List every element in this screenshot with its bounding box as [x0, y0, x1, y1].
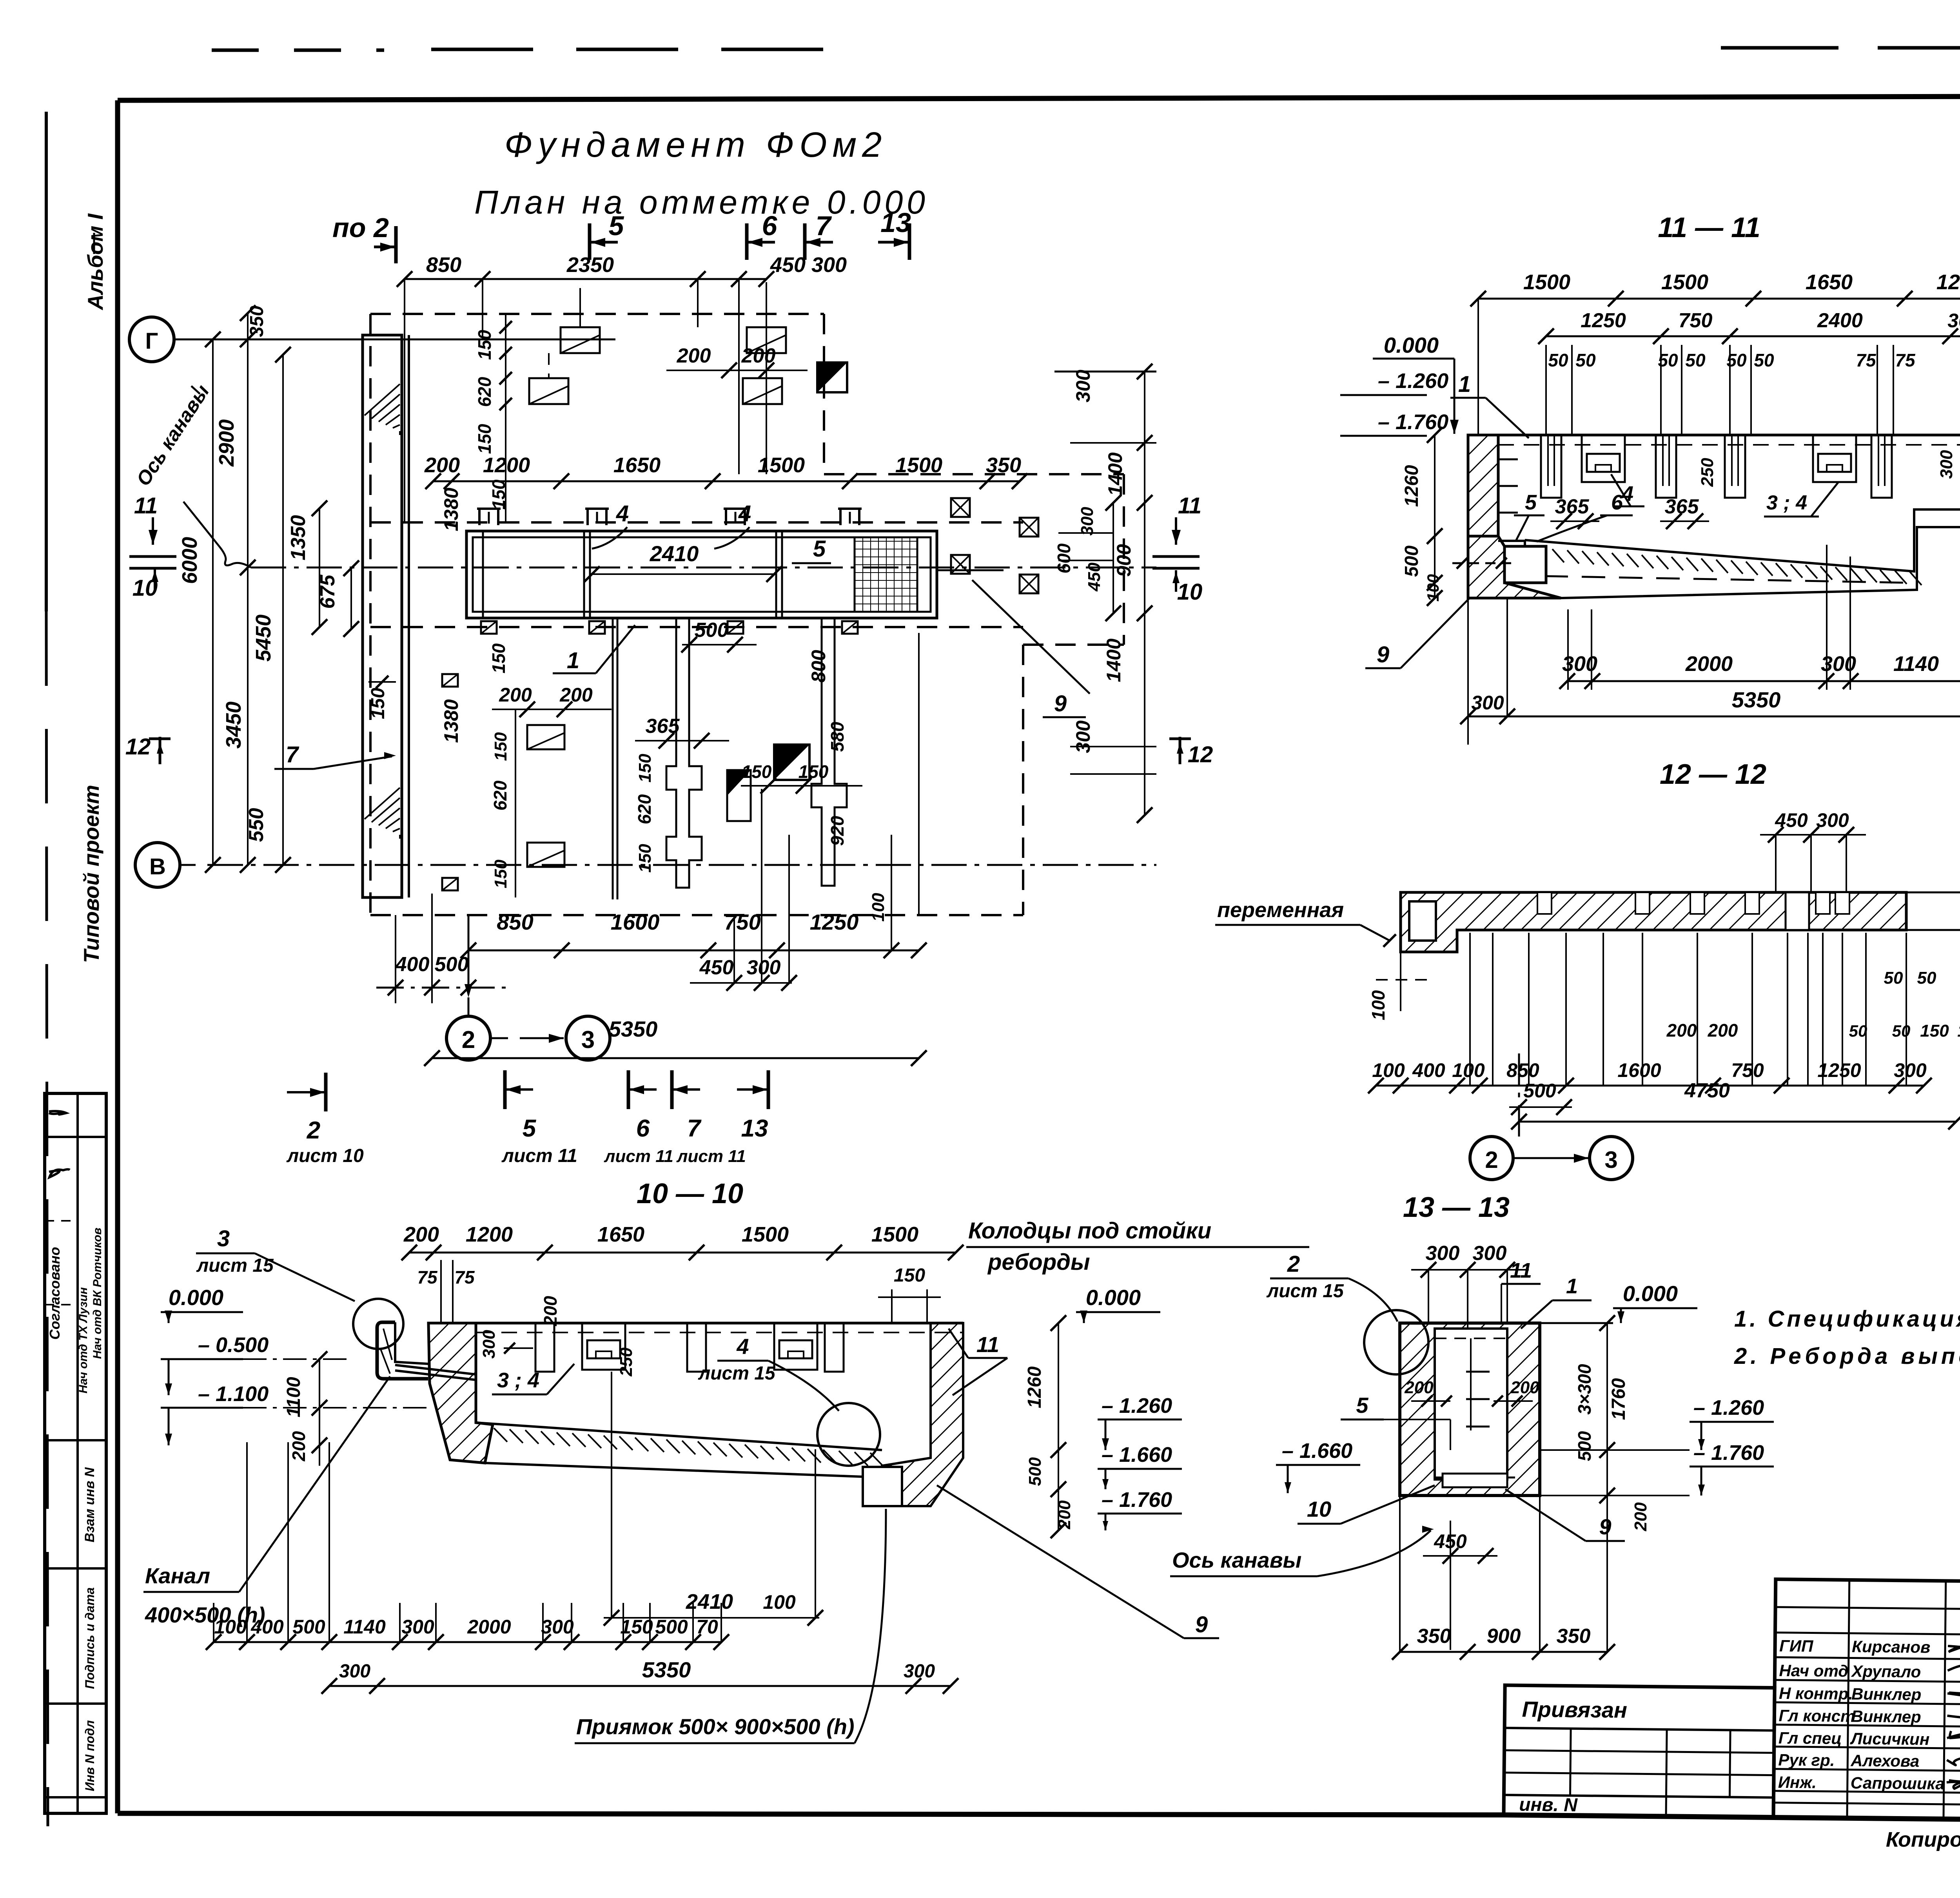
svg-text:1500: 1500	[895, 453, 942, 477]
svg-text:300: 300	[1072, 720, 1094, 753]
svg-text:Г: Г	[145, 328, 158, 354]
svg-text:2350: 2350	[566, 253, 614, 277]
svg-text:50: 50	[1884, 968, 1903, 988]
title block	[1504, 1577, 1960, 1836]
svg-text:300: 300	[1816, 809, 1849, 831]
svg-text:2: 2	[307, 1117, 320, 1144]
svg-text:Колодцы под стойки: Колодцы под стойки	[968, 1218, 1211, 1244]
svg-text:1760: 1760	[1608, 1378, 1629, 1420]
svg-text:0.000: 0.000	[169, 1285, 223, 1310]
svg-text:200: 200	[1510, 1378, 1539, 1397]
plan: axis circle V	[135, 843, 180, 887]
svg-text:10: 10	[1177, 579, 1203, 605]
svg-text:Взам инв N: Взам инв N	[82, 1467, 97, 1543]
plan: bottom cut markers	[324, 1073, 328, 1111]
svg-text:500: 500	[1025, 1457, 1045, 1486]
svg-text:300: 300	[1473, 1242, 1507, 1265]
svg-text:10: 10	[1307, 1497, 1331, 1521]
plan: vertical line to circle 2	[468, 915, 470, 995]
svg-text:400: 400	[250, 1616, 284, 1638]
svg-text:200: 200	[559, 684, 593, 706]
svg-text:Рук гр.: Рук гр.	[1778, 1751, 1835, 1769]
tb: privyazan block	[1504, 1685, 1775, 1817]
svg-text:12: 12	[125, 734, 151, 760]
plan: center axis dash-dot	[251, 567, 1156, 569]
svg-text:лист 15: лист 15	[1266, 1281, 1344, 1302]
svg-text:150: 150	[1957, 1021, 1960, 1041]
svg-text:450: 450	[770, 253, 806, 277]
svg-text:Привязан: Привязан	[1522, 1697, 1627, 1722]
svg-text:– 1.260: – 1.260	[1693, 1396, 1764, 1419]
s11: top dim row2	[1546, 335, 1960, 337]
svg-text:150: 150	[894, 1265, 925, 1286]
svg-text:3 ; 4: 3 ; 4	[497, 1369, 539, 1392]
svg-text:300: 300	[541, 1616, 574, 1638]
svg-text:7: 7	[687, 1115, 702, 1142]
svg-text:1380: 1380	[440, 699, 462, 743]
svg-text:75: 75	[1856, 350, 1877, 370]
s10: body	[377, 1322, 428, 1379]
svg-text:ГИП: ГИП	[1779, 1637, 1813, 1655]
svg-text:1200: 1200	[483, 453, 530, 477]
plan: axis V dash-dot	[208, 864, 1156, 866]
svg-text:В: В	[149, 854, 166, 879]
plan: right end fittings	[951, 498, 970, 517]
left outer sheet edge	[45, 112, 48, 611]
svg-text:900: 900	[1113, 544, 1135, 577]
svg-text:300: 300	[1426, 1242, 1460, 1265]
cut marker 13 top	[908, 223, 911, 260]
svg-text:11: 11	[1178, 493, 1201, 518]
svg-text:Альбом I: Альбом I	[83, 213, 107, 311]
svg-text:2: 2	[1485, 1147, 1498, 1173]
plan: upper anchor cluster right	[747, 327, 786, 353]
svg-text:850: 850	[1506, 1059, 1539, 1081]
svg-text:300: 300	[401, 1616, 434, 1638]
svg-text:– 1.260: – 1.260	[1102, 1394, 1172, 1418]
svg-text:75: 75	[454, 1267, 475, 1287]
svg-text:5350: 5350	[1732, 687, 1781, 712]
svg-text:365: 365	[646, 715, 680, 738]
plan: top dim row A	[405, 278, 766, 280]
svg-text:0.000: 0.000	[1623, 1281, 1678, 1306]
svg-text:450: 450	[699, 956, 734, 979]
svg-text:100: 100	[214, 1616, 247, 1638]
svg-text:5350: 5350	[609, 1017, 658, 1041]
svg-text:1500: 1500	[758, 453, 805, 477]
svg-text:1260: 1260	[1024, 1366, 1045, 1408]
svg-text:400: 400	[1412, 1059, 1445, 1081]
svg-text:0.000: 0.000	[1086, 1285, 1141, 1310]
svg-text:70: 70	[696, 1616, 718, 1638]
svg-text:Нач отд: Нач отд	[1779, 1661, 1848, 1680]
svg-text:– 0.500: – 0.500	[198, 1333, 269, 1357]
s13: right rot dims	[1606, 1323, 1608, 1496]
s10: canal floor lines	[395, 1365, 476, 1374]
svg-text:2900: 2900	[215, 419, 238, 467]
svg-text:2000: 2000	[467, 1616, 511, 1638]
plan: wall strip (column axis G wall)	[363, 335, 402, 897]
plan: dashed pit outline	[370, 313, 824, 315]
svg-text:9: 9	[1054, 691, 1067, 716]
svg-text:лист 15: лист 15	[196, 1255, 274, 1276]
svg-text:Копировал Максимова: Копировал Максимова	[1886, 1828, 1960, 1851]
svg-text:7: 7	[286, 742, 299, 767]
svg-text:Канал: Канал	[145, 1563, 210, 1588]
svg-text:1500: 1500	[871, 1223, 918, 1246]
svg-text:300: 300	[1471, 692, 1504, 714]
svg-text:1650: 1650	[1806, 270, 1853, 294]
svg-text:Приямок 500× 900×500 (h): Приямок 500× 900×500 (h)	[576, 1714, 855, 1739]
svg-text:200: 200	[1666, 1020, 1697, 1041]
svg-text:1400: 1400	[1103, 638, 1125, 682]
svg-text:лист 15: лист 15	[698, 1363, 776, 1384]
svg-text:300: 300	[811, 253, 847, 277]
svg-text:Инж.: Инж.	[1778, 1773, 1817, 1792]
svg-text:переменная: переменная	[1217, 898, 1344, 922]
svg-text:Фундамент ФОм2: Фундамент ФОм2	[505, 125, 887, 165]
svg-text:200: 200	[677, 344, 711, 367]
svg-text:350: 350	[247, 306, 267, 337]
svg-text:620: 620	[474, 377, 495, 407]
svg-text:250: 250	[617, 1347, 636, 1377]
svg-text:150: 150	[474, 424, 495, 454]
svg-text:– 1.660: – 1.660	[1282, 1439, 1352, 1463]
s13: inner well marks	[1466, 1371, 1490, 1373]
plan: top dim row B	[433, 480, 1020, 482]
s10: right wall and pit	[882, 1323, 963, 1506]
svg-text:1140: 1140	[343, 1616, 386, 1638]
svg-text:Инв N подл: Инв N подл	[83, 1720, 97, 1791]
svg-text:750: 750	[1679, 309, 1713, 332]
svg-text:11: 11	[134, 493, 158, 518]
s11: verticals from dims to wells	[1545, 345, 1547, 435]
svg-text:лист 10: лист 10	[286, 1146, 364, 1166]
svg-text:750: 750	[1731, 1059, 1764, 1081]
svg-text:100: 100	[1368, 990, 1388, 1020]
svg-text:1500: 1500	[742, 1223, 789, 1246]
svg-text:200: 200	[1404, 1378, 1434, 1397]
left stamp strip	[45, 1093, 106, 1813]
plan: flag small bottom-left	[442, 674, 458, 687]
svg-text:200: 200	[289, 1431, 309, 1461]
plan: foundation beam	[466, 531, 937, 618]
svg-text:11: 11	[1510, 1259, 1532, 1282]
svg-text:– 1.660: – 1.660	[1102, 1443, 1172, 1467]
svg-text:4750: 4750	[1684, 1079, 1730, 1102]
svg-text:1200: 1200	[466, 1223, 513, 1246]
svg-text:900: 900	[1487, 1625, 1521, 1648]
svg-text:200: 200	[424, 453, 460, 477]
svg-text:Типовой проект: Типовой проект	[79, 785, 103, 963]
svg-text:50: 50	[1685, 350, 1706, 370]
s10: wells	[535, 1323, 554, 1372]
svg-text:1: 1	[1458, 372, 1471, 397]
svg-text:620: 620	[634, 794, 655, 824]
svg-text:1250: 1250	[1581, 309, 1626, 332]
svg-text:1. Спецификация фундамента: 1. Спецификация фундамента ФОм2 на листе…	[1734, 1306, 1960, 1332]
svg-text:Н контр.: Н контр.	[1779, 1684, 1853, 1703]
s10: slope hatch	[494, 1428, 507, 1442]
svg-text:5450: 5450	[252, 615, 275, 662]
svg-text:1650: 1650	[597, 1223, 644, 1246]
svg-text:Лисичкин: Лисичкин	[1850, 1729, 1930, 1748]
svg-text:150: 150	[491, 732, 510, 761]
svg-text:лист 11: лист 11	[676, 1147, 746, 1166]
svg-text:Согласовано: Согласовано	[47, 1247, 63, 1340]
svg-text:лист 11: лист 11	[501, 1146, 577, 1166]
svg-text:– 1.100: – 1.100	[198, 1382, 269, 1406]
svg-text:200: 200	[741, 344, 776, 367]
svg-text:Кирсанов: Кирсанов	[1852, 1637, 1931, 1657]
svg-text:750: 750	[724, 910, 760, 934]
svg-text:12: 12	[1188, 742, 1213, 767]
svg-text:1380: 1380	[440, 488, 462, 531]
svg-text:1600: 1600	[611, 910, 660, 934]
svg-text:300: 300	[479, 1330, 499, 1359]
svg-text:7: 7	[816, 210, 832, 241]
s10: verticals to bottom dims	[399, 1603, 401, 1642]
svg-text:9: 9	[1195, 1612, 1208, 1637]
s11: slab bottom slope	[1525, 509, 1960, 571]
plan: upper anchor cluster left	[561, 327, 600, 353]
svg-text:2400: 2400	[1817, 309, 1863, 332]
cut marker 6 top	[745, 223, 749, 260]
svg-text:200: 200	[1631, 1502, 1650, 1532]
plan: anchors above beam	[479, 509, 498, 525]
svg-text:500: 500	[1401, 546, 1422, 577]
s13: inner ledge	[1443, 1474, 1507, 1487]
s13: bottom dims 350 900 350	[1400, 1651, 1607, 1653]
svg-text:850: 850	[426, 253, 461, 277]
plan: lower anchor trunks	[612, 618, 614, 899]
svg-text:50: 50	[1575, 350, 1596, 370]
svg-text:500: 500	[1523, 1080, 1556, 1102]
svg-text:450: 450	[1775, 809, 1808, 831]
svg-text:200: 200	[540, 1296, 561, 1326]
svg-text:Алехова: Алехова	[1850, 1751, 1919, 1770]
svg-text:11 — 11: 11 — 11	[1658, 212, 1760, 243]
svg-text:10 — 10: 10 — 10	[637, 1178, 743, 1209]
svg-text:300: 300	[1937, 450, 1956, 479]
svg-text:Подпись и дата: Подпись и дата	[83, 1587, 97, 1689]
svg-text:4: 4	[616, 501, 629, 526]
s11: left vert dim chain	[1434, 435, 1436, 598]
svg-text:850: 850	[497, 910, 533, 934]
svg-text:11: 11	[976, 1332, 999, 1357]
svg-text:300: 300	[1072, 370, 1094, 402]
s12: circles 2 3	[1518, 1053, 1520, 1137]
svg-text:1100: 1100	[283, 1377, 304, 1418]
svg-text:5350: 5350	[642, 1657, 691, 1682]
svg-text:3: 3	[581, 1026, 595, 1053]
svg-text:12 — 12: 12 — 12	[1660, 759, 1766, 790]
svg-text:300: 300	[1821, 652, 1856, 676]
svg-text:2: 2	[1287, 1251, 1300, 1277]
tb: staff table	[1773, 1579, 1960, 1820]
s12: body	[1401, 892, 1906, 952]
scan artifact top dashes	[212, 49, 384, 52]
svg-text:150: 150	[620, 1616, 653, 1638]
svg-text:0.000: 0.000	[1384, 333, 1439, 357]
cut marker 5 top	[588, 223, 592, 260]
svg-text:Сапрошика: Сапрошика	[1851, 1773, 1945, 1793]
svg-text:3×300: 3×300	[1574, 1364, 1595, 1415]
svg-text:1600: 1600	[1617, 1059, 1661, 1081]
svg-text:5: 5	[1356, 1393, 1368, 1418]
svg-text:2410: 2410	[650, 541, 699, 566]
plan: grid square (reshetka)	[855, 537, 917, 612]
svg-text:150: 150	[474, 330, 495, 360]
svg-text:13 — 13: 13 — 13	[1403, 1192, 1510, 1223]
svg-text:9: 9	[1599, 1514, 1611, 1539]
cut marker 7 top	[803, 223, 807, 260]
s12: wells in slab	[1537, 892, 1552, 914]
svg-text:500: 500	[655, 1616, 688, 1638]
svg-text:300: 300	[1894, 1059, 1927, 1081]
svg-text:100: 100	[869, 893, 888, 922]
plan: axis circle G	[129, 317, 174, 362]
svg-text:100: 100	[1372, 1059, 1405, 1081]
svg-text:600: 600	[1054, 543, 1074, 573]
s13: body	[1400, 1323, 1540, 1496]
plan: marker circles 2,3	[446, 1016, 490, 1060]
svg-text:200: 200	[1708, 1020, 1738, 1041]
frame border	[118, 95, 1960, 100]
svg-text:150: 150	[488, 643, 509, 673]
svg-text:Гл спец: Гл спец	[1779, 1729, 1842, 1748]
plan: left vertical dim lines	[212, 339, 214, 865]
svg-text:675: 675	[316, 575, 339, 609]
svg-text:200: 200	[1055, 1500, 1074, 1530]
svg-text:350: 350	[986, 453, 1021, 477]
svg-text:300: 300	[1562, 652, 1597, 676]
svg-text:150: 150	[368, 688, 388, 719]
svg-text:550: 550	[245, 808, 268, 842]
svg-text:2: 2	[462, 1026, 475, 1053]
svg-text:620: 620	[490, 780, 510, 810]
svg-text:по 2: по 2	[332, 212, 389, 243]
svg-text:800: 800	[808, 650, 829, 683]
svg-text:– 1.760: – 1.760	[1102, 1488, 1172, 1512]
svg-text:3: 3	[217, 1226, 230, 1251]
svg-text:6: 6	[762, 210, 778, 241]
svg-text:580: 580	[827, 721, 848, 752]
plan: 9 leader right	[972, 580, 1090, 694]
s10: right vert dims	[1058, 1323, 1059, 1530]
svg-text:3450: 3450	[222, 702, 245, 749]
svg-text:50: 50	[1548, 350, 1568, 370]
svg-text:План на отметке 0.000: План на отметке 0.000	[474, 184, 929, 221]
svg-text:5: 5	[609, 210, 624, 241]
svg-text:1500: 1500	[1523, 270, 1570, 294]
svg-text:500: 500	[292, 1616, 325, 1638]
svg-text:50: 50	[1892, 1022, 1911, 1040]
svg-text:200: 200	[403, 1223, 439, 1246]
svg-text:500: 500	[1574, 1431, 1595, 1461]
svg-text:350: 350	[1417, 1625, 1451, 1648]
s11: slope hatch	[1552, 549, 1564, 562]
svg-text:1: 1	[567, 648, 579, 673]
svg-text:920: 920	[827, 816, 848, 846]
svg-text:5: 5	[1525, 491, 1537, 514]
plan: mid cross anchor	[675, 618, 677, 737]
svg-text:3 ; 4: 3 ; 4	[1766, 491, 1807, 514]
svg-text:1650: 1650	[613, 453, 661, 477]
svg-text:Винклер: Винклер	[1851, 1707, 1921, 1726]
s11: left pit	[1498, 540, 1525, 542]
svg-text:250: 250	[1698, 458, 1717, 487]
svg-text:150: 150	[635, 754, 655, 783]
svg-text:1250: 1250	[810, 910, 859, 934]
svg-text:1250: 1250	[1817, 1059, 1861, 1081]
svg-text:3: 3	[1604, 1147, 1617, 1173]
svg-text:– 1.760: – 1.760	[1693, 1441, 1764, 1465]
svg-text:75: 75	[417, 1267, 438, 1287]
svg-text:150: 150	[488, 479, 509, 509]
svg-text:100: 100	[1424, 574, 1442, 602]
svg-text:100: 100	[1452, 1059, 1485, 1081]
s11: top dim row1	[1478, 298, 1960, 300]
svg-text:6: 6	[636, 1115, 650, 1142]
svg-text:Нач отд ВК Ротчиков: Нач отд ВК Ротчиков	[91, 1227, 104, 1359]
svg-text:Гл конст: Гл конст	[1779, 1706, 1855, 1726]
svg-text:150: 150	[491, 859, 510, 888]
svg-text:6000: 6000	[178, 537, 201, 584]
svg-text:Хрупало: Хрупало	[1851, 1662, 1921, 1681]
svg-text:13: 13	[880, 207, 911, 238]
svg-text:500: 500	[435, 953, 469, 976]
svg-text:200: 200	[499, 684, 532, 706]
svg-text:150: 150	[1920, 1021, 1949, 1041]
s10: bottom dim row	[214, 1641, 721, 1643]
s11: bottom dims	[1567, 609, 1569, 690]
s10: hatched left block	[428, 1323, 493, 1463]
svg-text:9: 9	[1377, 642, 1389, 667]
svg-text:350: 350	[1557, 1625, 1591, 1648]
s10: top slab	[428, 1322, 963, 1325]
s12: below dim leaders	[1469, 933, 1471, 1086]
svg-text:1260: 1260	[1401, 465, 1422, 507]
svg-text:300: 300	[1947, 310, 1960, 332]
svg-text:400: 400	[395, 953, 430, 976]
svg-text:150: 150	[635, 844, 655, 873]
svg-text:500: 500	[695, 619, 729, 642]
plan: wall hatch top	[365, 384, 400, 415]
svg-text:Нач отд ТХ Лузин: Нач отд ТХ Лузин	[77, 1287, 90, 1394]
plan: wall hatch bottom	[365, 788, 400, 819]
svg-text:300: 300	[339, 1661, 370, 1682]
svg-text:150: 150	[799, 761, 829, 782]
svg-text:300: 300	[1078, 507, 1097, 536]
svg-text:Ось канавы: Ось канавы	[1172, 1548, 1301, 1572]
svg-text:2000: 2000	[1685, 652, 1733, 676]
svg-text:300: 300	[747, 956, 781, 979]
s11: body outline	[1468, 435, 1498, 536]
svg-text:2. Реборда выполняется по че: 2. Реборда выполняется по чертежам марки…	[1734, 1343, 1960, 1369]
svg-text:75: 75	[1895, 350, 1916, 370]
svg-text:50: 50	[1754, 350, 1774, 370]
plan: anchors below beam	[481, 621, 497, 634]
svg-text:5: 5	[813, 536, 826, 562]
plan: corner flag low-right	[727, 770, 751, 821]
svg-text:4: 4	[736, 1334, 749, 1359]
svg-text:100: 100	[763, 1591, 796, 1613]
svg-text:инв. N: инв. N	[1519, 1794, 1578, 1815]
svg-text:450: 450	[1085, 562, 1104, 592]
s12: dims row 100 400 100 850 1600 750 1250 300	[1376, 1085, 1924, 1087]
svg-text:лист 11: лист 11	[604, 1147, 673, 1166]
